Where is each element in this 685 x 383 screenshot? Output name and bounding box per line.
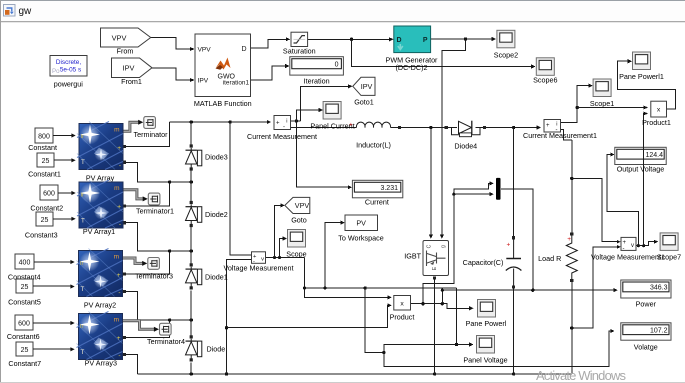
svg-text:IGBT: IGBT <box>404 251 421 260</box>
wire v down-right to Panel Voltage node <box>455 288 458 346</box>
Panel Voltage scope <box>477 336 495 354</box>
Pane Powerl scope <box>478 300 496 318</box>
svg-text:124.4: 124.4 <box>645 152 663 159</box>
svg-text:Constant: Constant <box>28 143 57 152</box>
svg-text:600: 600 <box>43 190 55 197</box>
svg-text:D: D <box>241 46 246 53</box>
wire Inductor to Diode4 <box>401 126 448 129</box>
svg-text:800: 800 <box>38 133 50 140</box>
svg-text:Scope: Scope <box>286 249 306 258</box>
svg-text:25: 25 <box>42 158 50 165</box>
node on saturation output <box>350 38 353 41</box>
Product block <box>394 296 411 311</box>
wire IGBT emitter to bus <box>433 276 436 374</box>
svg-text:Iteration: Iteration <box>304 76 330 85</box>
svg-text:25: 25 <box>41 217 49 224</box>
svg-text:VPV: VPV <box>112 33 127 42</box>
wire branch up to Product1 input2 <box>644 111 648 245</box>
Output Voltage display <box>615 147 666 164</box>
Constant5 block 25 <box>16 279 75 293</box>
svg-text:3.231: 3.231 <box>380 185 398 192</box>
wire PV Array3 plus up to junction 320 <box>123 318 193 339</box>
Terminator3 block <box>148 258 160 270</box>
svg-text:IPV: IPV <box>361 82 373 91</box>
svg-text:Diode: Diode <box>207 345 226 354</box>
wire From(VPV) to MATLAB Function VPV input <box>151 38 194 52</box>
svg-text:Constant5: Constant5 <box>8 298 41 307</box>
wire PV Array2 minus to junction 320 <box>123 290 191 320</box>
wire PV Array2 plus up to junction 251 <box>123 249 193 275</box>
Constant4 block 400 <box>15 254 75 269</box>
measurement bus wire PV Array2 m to Terminator3 <box>123 258 147 266</box>
Saturation block <box>291 32 308 46</box>
svg-text:Panel Voltage: Panel Voltage <box>463 355 507 364</box>
svg-text:Voltage Measurement1: Voltage Measurement1 <box>591 253 665 262</box>
svg-text:Output Voltage: Output Voltage <box>617 165 665 174</box>
Diode4 block <box>448 121 483 137</box>
wire v signal to Output Voltage display <box>607 152 640 247</box>
diode string vertical wires <box>190 122 192 374</box>
node on PWM output <box>464 37 467 40</box>
wire branch to Product1 input1 <box>577 105 648 109</box>
PV Array block <box>77 122 123 170</box>
svg-text:+: + <box>349 122 353 129</box>
svg-text:i: i <box>286 119 287 125</box>
svg-text:PV Array1: PV Array1 <box>83 227 115 236</box>
Scope2 block <box>497 30 515 48</box>
svg-text:v: v <box>631 243 634 249</box>
Power display <box>621 280 671 298</box>
svg-text:25: 25 <box>21 284 29 291</box>
svg-text:107.2: 107.2 <box>650 328 668 335</box>
svg-text:From1: From1 <box>121 77 142 86</box>
wire PWM branch to IGBT gate <box>440 39 466 239</box>
svg-text:Scope6: Scope6 <box>533 76 557 85</box>
svg-text:E: E <box>432 266 438 270</box>
wire top PV bus to Current Measurement <box>170 120 272 124</box>
svg-text:600: 600 <box>18 320 30 327</box>
Constant2 block 600 <box>40 185 76 200</box>
wire PV Array1 minus to junction 251 <box>123 221 191 251</box>
svg-text:Current: Current <box>365 198 389 207</box>
PV Array2 block <box>77 249 123 297</box>
svg-text:Product1: Product1 <box>642 118 671 127</box>
Scope1 block <box>593 79 611 97</box>
svg-text:Discrete,: Discrete, <box>56 59 81 66</box>
wire PV Array3 minus to bottom bus <box>123 353 137 374</box>
wire Voltage Measurement1 minus feed from Load R bottom <box>570 245 621 330</box>
Voltage Measurement block <box>252 252 266 265</box>
wire Voltage Measurement v output <box>266 256 305 259</box>
svg-text:Diode3: Diode3 <box>205 153 228 162</box>
mux block <box>496 178 501 200</box>
wire PV Array minus to junction 182 <box>123 161 191 182</box>
wire Capacitor bottom to ground bus <box>512 285 515 375</box>
svg-text:Activate Windows: Activate Windows <box>536 368 627 383</box>
svg-text:Current Measurement1: Current Measurement1 <box>523 131 597 140</box>
svg-text:346.3: 346.3 <box>650 285 668 292</box>
wire to Current display <box>296 121 352 189</box>
svg-text:Inductor(L): Inductor(L) <box>356 141 391 150</box>
Goto tag VPV <box>285 197 310 213</box>
svg-text:Capacitor(C): Capacitor(C) <box>463 258 504 267</box>
capacitor C symbol <box>506 239 522 286</box>
wire panel voltage to Product input2 <box>227 303 392 327</box>
svg-text:VPV: VPV <box>198 47 212 54</box>
svg-text:Pane Powerl: Pane Powerl <box>466 319 507 328</box>
svg-text:PV Array2: PV Array2 <box>84 300 116 309</box>
Constant7 block 25 <box>16 342 75 356</box>
svg-text:Terminator4: Terminator4 <box>147 337 185 346</box>
Scope6 block <box>536 58 554 76</box>
Diode2 block <box>186 201 202 227</box>
svg-text:C: C <box>427 244 433 248</box>
title bar model icon <box>4 5 16 17</box>
wire Product output <box>411 302 474 310</box>
svg-text:gw: gw <box>19 6 33 17</box>
svg-text:g: g <box>441 245 447 248</box>
wire to mux input2 <box>454 192 494 196</box>
svg-text:v: v <box>261 257 264 263</box>
svg-text:+: + <box>276 121 280 127</box>
svg-text:Current Measurement: Current Measurement <box>247 132 317 141</box>
wire Voltage Measurement1 v to Scope7 <box>636 240 658 248</box>
wire v signal to Product input1 <box>303 258 392 300</box>
svg-text:Goto1: Goto1 <box>354 97 374 106</box>
PV Array1 block <box>77 180 123 228</box>
Goto1 tag IPV <box>353 77 375 95</box>
Load R resistor symbol <box>566 235 577 279</box>
Constant3 block 25 <box>36 212 76 226</box>
svg-text:25: 25 <box>21 347 29 354</box>
svg-text:VPV: VPV <box>295 201 310 210</box>
wire rail down to Voltage Measurement1 plus <box>572 178 621 243</box>
svg-text:5e-05 s: 5e-05 s <box>60 67 81 74</box>
svg-text:Constant1: Constant1 <box>28 169 61 178</box>
svg-text:x: x <box>657 107 661 114</box>
svg-text:400: 400 <box>19 259 31 266</box>
svg-text:IPV: IPV <box>123 64 135 73</box>
svg-text:Constant3: Constant3 <box>25 230 58 239</box>
wire MATLAB Function iteration1 to Iteration display <box>251 64 290 80</box>
PWM Generator block <box>394 26 431 53</box>
Diode3 block <box>186 144 202 170</box>
wire mux output down <box>501 189 535 292</box>
svg-text:Terminator1: Terminator1 <box>136 206 174 215</box>
wire product branch to mux inputs <box>423 181 494 303</box>
From1 tag IPV <box>112 58 153 78</box>
powergui block <box>50 56 87 77</box>
svg-text:Product: Product <box>390 313 415 322</box>
svg-text:Terminator: Terminator <box>134 130 169 139</box>
svg-text:Terminator3: Terminator3 <box>135 271 173 280</box>
wire into Panel Voltage scope <box>384 342 474 352</box>
measurement bus wire PV Array m to Terminator <box>124 120 144 132</box>
svg-text:x: x <box>400 300 404 307</box>
svg-text:MATLAB Function: MATLAB Function <box>194 99 252 108</box>
svg-text:Diode4: Diode4 <box>454 141 477 150</box>
From tag VPV <box>101 28 151 47</box>
wire From1(IPV) to MATLAB Function IPV input <box>152 68 194 82</box>
svg-text:Constant2: Constant2 <box>30 203 63 212</box>
wire to Goto VPV <box>275 203 285 257</box>
wire to Panel Current scope <box>296 108 323 121</box>
wire MATLAB Function D to Saturation <box>251 37 291 48</box>
wire overlay crossing Output Voltage display <box>643 147 645 165</box>
Constant block 800 <box>35 128 76 143</box>
wire Current Measurement1 minus rail <box>561 130 572 140</box>
bottom bus wire <box>137 372 571 375</box>
svg-text:-: - <box>283 125 285 131</box>
Iteration display block <box>290 57 344 75</box>
Current Measurement block <box>274 116 291 131</box>
svg-text:P: P <box>423 37 428 44</box>
measurement bus wire PV Array3 m to Terminator4 <box>123 321 159 332</box>
wire to Volatge display <box>384 329 615 367</box>
svg-text:PV Array3: PV Array3 <box>85 358 117 367</box>
svg-text:Goto: Goto <box>291 215 307 224</box>
wire to Goto1 IPV <box>301 84 353 121</box>
Scope7 block <box>660 233 678 251</box>
Current display block <box>352 180 402 198</box>
svg-text:(DC-DC)2: (DC-DC)2 <box>396 63 428 72</box>
svg-text:+: + <box>507 242 511 249</box>
svg-text:-: - <box>623 246 625 252</box>
wire node down to Capacitor <box>512 128 515 240</box>
svg-text:IPV: IPV <box>198 78 209 85</box>
wire node to IGBT collector <box>429 128 433 239</box>
Inductor(L) coil <box>356 122 390 127</box>
wire PWM Generator P to Scope2 <box>431 37 496 41</box>
wire v down-left to Panel Voltage node <box>365 288 385 354</box>
svg-text:D: D <box>397 37 402 44</box>
svg-text:Scope2: Scope2 <box>494 50 518 59</box>
svg-text:Po: Po <box>52 68 60 75</box>
wire Inductor right lead <box>391 126 402 129</box>
Panel Current scope <box>323 102 341 120</box>
wire to Scope <box>280 236 288 257</box>
wire down to Load R top <box>570 140 573 236</box>
svg-text:From: From <box>117 47 134 56</box>
svg-text:Constant7: Constant7 <box>8 359 41 368</box>
svg-text:Volatge: Volatge <box>634 342 658 351</box>
Current Measurement1 block <box>544 120 561 134</box>
svg-text:Diode2: Diode2 <box>205 210 228 219</box>
svg-text:Constant6: Constant6 <box>7 332 40 341</box>
Product1 block <box>651 101 667 117</box>
svg-text:Saturation: Saturation <box>283 47 316 56</box>
wire product branch to Power display <box>441 288 618 304</box>
measurement bus wire PV Array1 m to Terminator1 <box>124 190 148 202</box>
svg-text:0: 0 <box>335 62 339 69</box>
Diode block <box>186 335 202 361</box>
svg-text:Pane Powerl1: Pane Powerl1 <box>619 72 664 81</box>
wire Saturation branch to Scope6 <box>352 39 536 68</box>
svg-text:+: + <box>546 123 550 129</box>
Scope block <box>288 230 306 248</box>
Terminator block <box>144 117 156 129</box>
Constant1 block 25 <box>37 153 76 167</box>
wire Load R bottom to bus <box>570 279 573 374</box>
Diode1 block <box>186 263 202 289</box>
svg-text:iteration1: iteration1 <box>223 80 250 87</box>
svg-text:Diode1: Diode1 <box>205 273 228 282</box>
wire Product1 output loop to Pane Powerl1 <box>618 59 676 109</box>
To Workspace block PV <box>345 215 378 231</box>
wire Voltage Measurement minus to bottom bus <box>225 259 252 374</box>
wire Current Measurement i output stub <box>291 119 301 122</box>
Pane Powerl1 scope <box>633 52 651 70</box>
MATLAB Function block U1 <box>195 34 251 97</box>
wire bus down to Voltage Measurement plus <box>230 122 251 255</box>
svg-text:Power: Power <box>636 299 657 308</box>
wire to To Workspace <box>325 221 345 289</box>
IGBT block Q1 <box>423 241 449 276</box>
PV Array3 block <box>77 312 123 360</box>
svg-text:Scope1: Scope1 <box>590 99 614 108</box>
Terminator4 block <box>160 323 172 335</box>
Volatge display <box>621 323 671 340</box>
svg-text:+: + <box>567 236 571 243</box>
svg-text:Voltage Measurement: Voltage Measurement <box>224 263 294 272</box>
svg-text:To Workspace: To Workspace <box>338 233 383 242</box>
svg-text:Load R: Load R <box>538 254 561 263</box>
svg-text:powergui: powergui <box>54 80 84 89</box>
Terminator1 block <box>148 193 160 205</box>
svg-text:PV: PV <box>356 219 366 228</box>
wire Saturation to PWM Generator D <box>308 37 394 41</box>
wire Diode4 to Current Measurement1 <box>483 125 541 129</box>
wire PV Array plus up to bus <box>123 122 170 148</box>
wire Current Measurement1 i output to Scope1 <box>561 84 593 123</box>
Constant6 block 600 <box>15 315 75 330</box>
Voltage Measurement1 block <box>621 237 636 252</box>
svg-text:Scope7: Scope7 <box>657 253 681 262</box>
wire v signal lateral feed <box>304 286 456 289</box>
wire PV Array1 plus up to junction 182 <box>123 180 193 207</box>
wire Current Measurement minus to Inductor <box>291 127 357 129</box>
